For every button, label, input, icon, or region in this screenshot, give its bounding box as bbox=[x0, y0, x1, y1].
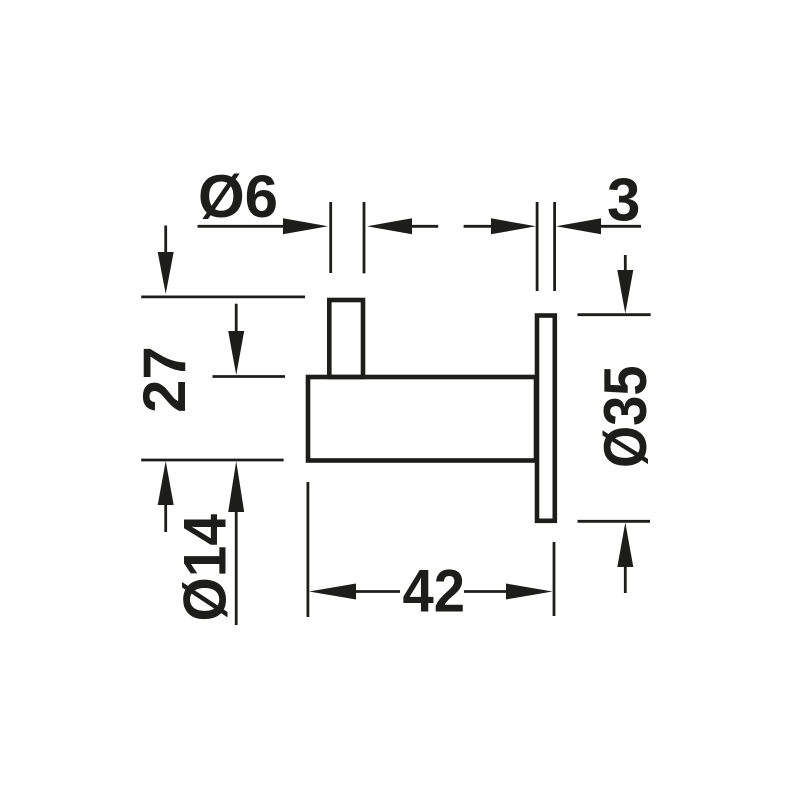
stem of Ø14 lower arrow bbox=[235, 509, 238, 625]
dimension line 42 left stem bbox=[352, 590, 400, 593]
arrowhead Ø35 pointing down at plate top line bbox=[617, 270, 633, 314]
stem of Ø35 lower arrow bbox=[624, 564, 627, 593]
extension line plate top level (Ø35) bbox=[578, 313, 651, 316]
stem of 27 upper arrow bbox=[164, 226, 167, 257]
svg-text:42: 42 bbox=[403, 558, 466, 625]
extension line peg right (Ø6) bbox=[363, 202, 366, 273]
arrowhead 42 pointing left at body front line bbox=[309, 584, 356, 600]
arrowhead Ø14 pointing up at body bottom line bbox=[228, 461, 244, 512]
svg-text:Ø35: Ø35 bbox=[592, 366, 659, 469]
svg-text:3: 3 bbox=[607, 167, 640, 234]
stem of Ø14 upper arrow bbox=[235, 304, 238, 334]
extension line peg top level (27) bbox=[141, 295, 305, 298]
dimension line 3 left stem bbox=[464, 225, 496, 228]
arrowhead Ø6 pointing left at peg right bbox=[367, 218, 412, 234]
arrowhead 27 pointing down at peg top line bbox=[158, 252, 174, 294]
stem of Ø35 upper arrow bbox=[624, 255, 627, 272]
extension line plate right (3) bbox=[553, 202, 556, 291]
arrowhead 3 pointing left at plate right bbox=[556, 218, 601, 234]
extension line plate bottom level (Ø35) bbox=[578, 520, 651, 523]
arrowhead 27 pointing up at body bottom line bbox=[158, 461, 174, 505]
hook body (cylinder side view) bbox=[308, 377, 536, 461]
arrowhead Ø14 pointing down at body top line bbox=[228, 331, 244, 375]
extension line plate left (3) bbox=[536, 202, 539, 291]
arrowhead 3 pointing right at plate left bbox=[491, 218, 536, 234]
hook peg (Ø6 pin on top) bbox=[329, 300, 363, 377]
svg-text:Ø14: Ø14 bbox=[172, 513, 239, 621]
dimension line 3 right stem bbox=[598, 225, 641, 228]
extension line body top level (Ø14) bbox=[213, 375, 286, 378]
extension line 42 right (plate back face) bbox=[553, 542, 556, 616]
dimension line 42 right stem bbox=[464, 590, 511, 593]
dimension line Ø6 left segment bbox=[198, 225, 292, 228]
arrowhead Ø35 pointing up at plate bottom line bbox=[617, 523, 633, 568]
dimension line Ø6 right stem bbox=[406, 225, 438, 228]
wall plate (Ø35 rosette, side view) bbox=[537, 316, 555, 521]
stem of 27 lower arrow bbox=[164, 503, 167, 532]
svg-text:27: 27 bbox=[131, 346, 198, 413]
svg-text:Ø6: Ø6 bbox=[198, 163, 278, 230]
arrowhead Ø6 pointing right at peg left bbox=[283, 218, 328, 234]
extension line body bottom level (27 / Ø14) bbox=[141, 459, 284, 462]
extension line peg left (Ø6) bbox=[329, 202, 332, 273]
extension line 42 left (body front face) bbox=[306, 482, 309, 617]
arrowhead 42 pointing right at plate back line bbox=[506, 584, 553, 600]
